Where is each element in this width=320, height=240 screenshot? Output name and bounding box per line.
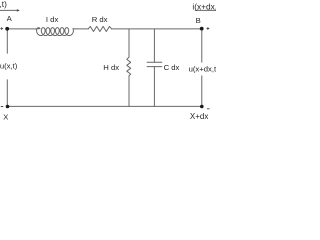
resistor H dx (vertical zigzag) (127, 57, 131, 75)
current arrow i(x+dx,t) (195, 9, 216, 11)
svg-text:u(x+dx,t): u(x+dx,t) (189, 64, 216, 73)
capacitor C dx, bottom plate (147, 66, 162, 68)
white mask under label u(x,t) (0, 54, 20, 80)
svg-text:X+dx: X+dx (190, 112, 208, 120)
wire: capacitor branch, bottom lead (153, 67, 155, 107)
node x junction dot (6, 105, 10, 109)
wire: top rail, node A to inductor (7, 28, 35, 30)
wire: left vertical, node A down to node x (6, 29, 8, 107)
wire: shunt branch H dx, top lead (128, 29, 130, 57)
wire: bottom rail, node x to node X+dx (7, 105, 202, 107)
svg-text:B: B (196, 16, 201, 25)
resistor R dx (88, 26, 111, 31)
svg-text:i(x+dx,t): i(x+dx,t) (192, 1, 216, 11)
node X+dx junction dot (200, 105, 204, 109)
svg-text:I dx: I dx (46, 15, 59, 24)
polarity + at node B (207, 28, 209, 30)
wire: inductor to resistor (76, 28, 88, 30)
svg-text:X: X (3, 113, 8, 120)
wire: right vertical, node B down to node X+dx (201, 29, 203, 107)
svg-text:C dx: C dx (164, 63, 180, 72)
node A junction dot (5, 27, 9, 31)
polarity + at node A (1, 28, 3, 30)
polarity - at node X+dx (207, 108, 209, 110)
inductor I dx (35, 28, 77, 36)
svg-text:A: A (7, 14, 13, 23)
arrowhead of current arrow i(x,t) (17, 9, 20, 12)
polarity - at node x (1, 106, 3, 108)
node B junction dot (200, 27, 204, 31)
wire: shunt branch H dx, bottom lead (128, 76, 130, 107)
current arrow i(x,t) (0, 9, 19, 11)
capacitor C dx, top plate (147, 61, 162, 63)
svg-text:,t): ,t) (0, 0, 7, 9)
svg-text:u(x,t): u(x,t) (0, 61, 18, 70)
svg-text:H dx: H dx (103, 63, 119, 72)
wire: top rail, resistor to node B (112, 28, 202, 30)
wire: capacitor branch, top lead (153, 29, 155, 62)
svg-text:R dx: R dx (92, 15, 108, 24)
white mask under label u(x+dx,t) (189, 63, 217, 76)
